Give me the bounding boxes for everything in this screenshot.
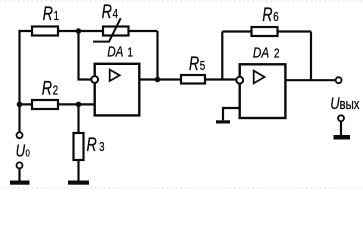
wire: feedback drop from node A to DA1 inverting input [79,31,92,80]
svg-text:DA2: DA2 [253,44,280,61]
label R6 [262,4,279,25]
wire: DA2 output to terminal [285,79,335,81]
op-amp DA2 triangle [254,71,265,84]
label R3 [87,134,105,155]
op-amp U2 (DA2) body [240,64,286,118]
resistor R6 [252,27,278,36]
ground at DA2 non-inverting input [216,120,230,123]
wire: R4 right end down to DA1 output node B [156,31,158,80]
label DA2 [253,44,280,61]
wire: R6 feedback left vertical x=222.3 [221,32,223,80]
label U0 [16,142,30,161]
wire: R2 net y=104.4 from rail to DA1 non-inverting input [20,103,95,105]
label DA1 [107,43,133,60]
wire: top-left net y=31 from left rail through R1,R4 to x=157.5 [20,30,158,32]
node B junction dot (DA1 output) [155,77,161,83]
wire: node C down through R3 to ground [77,104,79,180]
wire: DA2 non-inverting input to ground [223,108,240,120]
output ground post terminal [334,115,351,139]
input ground post terminal [10,162,30,184]
resistor R4 (adjustable) [103,27,129,36]
op-amp DA1 inverting input bubble [91,76,98,83]
resistor R1 [32,27,58,36]
wire: R6 right vertical down to output [310,32,312,81]
label R4 [102,1,119,22]
wire: left input rail x=19.5 [18,30,20,132]
resistor R3 (vertical) [74,133,84,160]
node D junction dot (rail/R2) [17,102,23,108]
label U_out [330,94,360,113]
label R5 [189,53,206,74]
output terminal [336,77,342,83]
border top [0,0,363,2]
resistor R5 [181,75,205,84]
op-amp DA1 triangle [110,70,120,81]
op-amp U1 (DA1) body [95,64,140,116]
border bottom [0,187,363,189]
label R1 [43,3,59,24]
wire: DA1 output to DA2 inverting input through R5 [139,78,236,80]
wire: R6 top net y=31.5 [222,30,311,32]
node C junction dot [76,102,82,108]
ground under R3 [68,181,89,185]
svg-text:DA1: DA1 [107,43,133,60]
input terminal U0 [17,132,23,138]
resistor R2 [32,100,58,109]
adjustment stroke of R4 [93,18,121,41]
svg-text:Uвых: Uвых [330,94,360,113]
label R2 [42,78,58,99]
op-amp DA2 inverting input bubble [236,77,243,84]
node A junction dot [76,28,82,34]
